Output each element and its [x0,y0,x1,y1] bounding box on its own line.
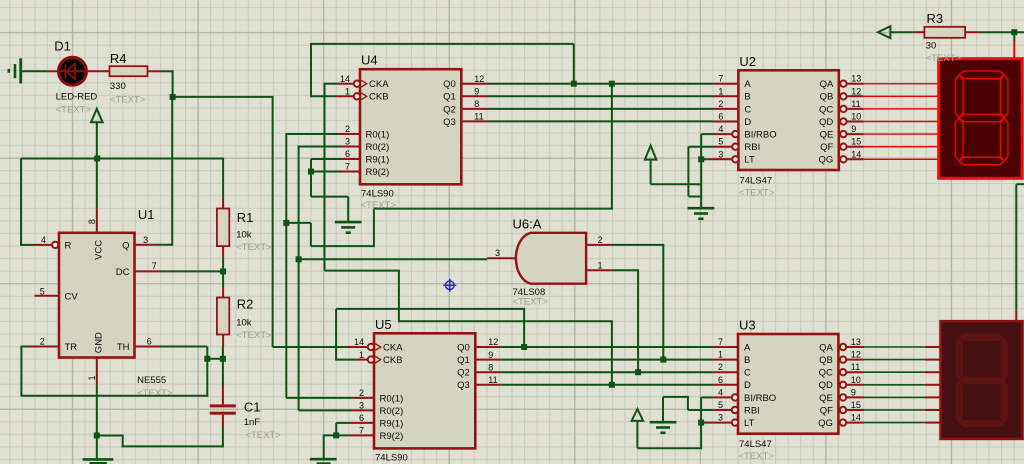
U1 pin 6 TH stub [135,346,161,348]
wire TR down [20,346,22,396]
svg-text:QC: QC [819,368,833,379]
wire down to U2 A net [573,44,575,84]
svg-text:8: 8 [474,99,479,109]
svg-text:<TEXT>: <TEXT> [926,53,962,64]
svg-text:R3: R3 [927,11,944,26]
wire down right side [1015,184,1017,309]
wire link up [373,209,375,247]
wire corner down to junction [172,70,174,97]
svg-text:5: 5 [718,137,723,147]
ground below U2 [688,207,715,210]
U4 R0(2) stub [340,146,360,148]
wire to U4 R0(2) [299,146,340,148]
U5 pin 8 stub [475,371,500,373]
svg-text:LT: LT [744,155,755,166]
wire link to R2/C1 column [207,358,223,360]
svg-text:A: A [744,79,751,90]
svg-text:R0(2): R0(2) [380,406,404,417]
svg-text:CV: CV [65,291,79,302]
svg-text:14: 14 [851,413,861,423]
svg-text:R9(1): R9(1) [380,418,404,429]
junction Q2 / gate input 1 [635,369,641,375]
wire R0(2) column U4-U5 reset net [298,146,300,411]
svg-text:74LS90: 74LS90 [361,188,394,199]
display 1 top pin stub [1013,41,1015,59]
svg-text:4: 4 [718,387,723,397]
svg-text:TH: TH [117,342,130,353]
U5 pin 9 stub [475,359,500,361]
svg-text:C: C [744,368,751,379]
U5 CKA stub [348,346,368,348]
wire jog down [687,397,689,410]
U5 CKB stub [357,359,368,361]
wire to U2 LT stub [701,158,707,160]
U3 output wire row 6 to display 2 [847,422,864,424]
wire junction down to U1 Q row [171,97,173,245]
svg-text:R2: R2 [237,297,254,312]
U2 output wire row 6 to display 1 [847,158,863,160]
wire down to U5 Q0 [523,309,525,347]
wire R2 to C1 [222,346,224,387]
svg-text:74LS90: 74LS90 [375,452,408,463]
svg-text:13: 13 [851,337,861,347]
svg-text:Q3: Q3 [443,117,456,128]
svg-text:7: 7 [345,162,350,172]
svg-text:12: 12 [851,350,861,360]
svg-text:A: A [744,342,751,353]
wire CKA path right to Q3 column [399,320,613,322]
U4 CKA stub [337,83,354,85]
svg-text:14: 14 [340,74,350,84]
svg-text:<TEXT>: <TEXT> [513,297,549,308]
svg-text:12: 12 [474,74,484,84]
U5 pin 11 stub [475,384,500,386]
svg-text:3: 3 [718,149,723,159]
svg-text:R0(1): R0(1) [380,393,404,404]
terminal arrow left of R3 [878,26,890,38]
junction BI/RBO column / LT [698,156,704,162]
DISP1 segment C [1000,118,1008,161]
wire junction right toward U5 CKA column [173,96,273,98]
DISP1 segment B [1000,75,1008,118]
junction BI/RBO column / U3 LT [698,420,704,426]
U6 pin 3 output stub [487,257,515,259]
svg-text:R0(2): R0(2) [366,142,390,153]
junction R9(1)/R9(2) [308,169,314,175]
svg-text:QB: QB [820,92,834,103]
7-segment display DISP1 body [939,59,1023,179]
U1 pin 3 Q stub [135,244,158,246]
wire to U2 RBI [688,146,713,148]
svg-text:CKB: CKB [369,92,389,103]
junction reset net / gate output [296,256,302,262]
svg-text:QC: QC [819,104,833,115]
U3 output wire row 4 to display 2 [847,396,864,398]
svg-text:C: C [744,104,751,115]
U6 pin 2 stub [586,244,612,246]
wire BI/RBO column down [700,397,702,448]
svg-text:<TEXT>: <TEXT> [56,104,92,115]
U3 BI/RBO stub [713,396,732,398]
junction Q0 / R0(1) link [609,81,615,87]
svg-text:7: 7 [718,337,723,347]
power terminal near U2 [645,146,657,160]
svg-text:QE: QE [820,130,834,141]
op-amp U1 NE555 body [59,233,135,358]
U4 pin 11 stub [461,120,488,122]
junction TH column / R2-C1 link [204,356,210,362]
svg-text:5: 5 [718,400,723,410]
svg-text:9: 9 [488,350,493,360]
U1 pin 2 TR stub [29,346,59,348]
wire to U5 CKB [336,359,357,361]
svg-text:LT: LT [744,418,755,429]
svg-text:15: 15 [851,400,861,410]
svg-text:4: 4 [41,235,46,245]
wire to U2 BI/RBO [701,133,713,135]
U2 output wire row 5 to display 1 [847,146,863,148]
wire gate input 2 down to U5 Q1 [662,245,664,360]
ground near U3 [650,421,677,424]
svg-text:U6:A: U6:A [513,216,542,231]
wire U5 Q3 to U3 D [500,384,713,386]
svg-text:2: 2 [40,336,45,346]
U5 R0(2) stub [353,409,374,411]
wire CKA path down to U5 Q3 [611,321,613,385]
wire TR bottom run to TH column [20,395,207,397]
counter U4 74LS90 body [354,69,462,184]
svg-text:D: D [744,380,751,391]
wire link right 3 [374,208,613,210]
svg-text:2: 2 [598,235,603,245]
svg-text:BI/RBO: BI/RBO [744,130,776,141]
wire jog to U3 RBI [688,409,713,411]
svg-text:QD: QD [819,380,833,391]
svg-text:QA: QA [819,342,833,353]
U3 RBI stub [713,409,732,411]
R3 left stub [914,31,925,33]
svg-text:QA: QA [820,79,834,90]
U2 RBI stub [714,146,733,148]
wire down to display 1 [1013,32,1015,41]
wire arrow stem down [650,160,652,185]
wire U4 Q1 to U2 B [488,95,714,97]
svg-text:DC: DC [116,267,130,278]
wire RBI column down [687,147,689,197]
ground below U4 [335,221,362,224]
svg-text:QG: QG [819,155,834,166]
svg-text:6: 6 [345,149,350,159]
svg-text:6: 6 [718,375,723,385]
svg-text:7: 7 [152,261,157,271]
wire gate input 1 down to U5 Q2 [637,270,639,372]
svg-text:U4: U4 [361,53,378,68]
wire ground stem up [662,397,664,422]
wire C1 bottom run left [122,445,224,447]
DISP2 segment C [1000,380,1008,423]
wire U1 GND down to ground [96,385,98,459]
wire VCC rail horizontal [21,158,223,160]
capacitor C1 [210,387,236,427]
svg-text:14: 14 [851,149,861,159]
wire arrow to ground column [651,183,702,185]
svg-text:2: 2 [718,362,723,372]
wire to U5 R9(1) [336,422,350,424]
svg-text:9: 9 [851,124,856,134]
svg-text:U1: U1 [138,207,155,222]
svg-text:1: 1 [718,350,723,360]
wire U4 Q3 to U2 D [488,120,714,122]
decoder U2 74LS47 body [732,70,846,170]
svg-text:R9(2): R9(2) [380,431,404,442]
U3 input stub row 1 [713,359,738,361]
svg-text:10: 10 [851,112,861,122]
svg-text:QF: QF [820,142,833,153]
wire U4 Q0 to U2 A [488,83,714,85]
wire U5 Q1 to U3 B [500,359,713,361]
svg-text:8: 8 [488,362,493,372]
wire gate input 2 right [612,244,664,246]
junction GND / C1 return [94,433,100,439]
svg-text:<TEXT>: <TEXT> [236,242,272,253]
wire R0(1) column U4-U5 [285,133,287,398]
U5 pin 12 stub [475,346,500,348]
svg-text:3: 3 [345,137,350,147]
U1 pin 1 GND stub [96,358,98,386]
svg-text:R4: R4 [110,51,127,66]
wire arrow to R3 stub [890,31,913,33]
U3 output wire row 3 to display 2 [847,384,864,386]
junction R3 / display feed [1011,29,1017,35]
U3 input stub row 3 [713,384,738,386]
U4 R9(1) stub [340,158,360,160]
wire U4 Q2 to U2 C [488,108,714,110]
svg-text:Q0: Q0 [457,342,470,353]
svg-text:Q1: Q1 [443,92,456,103]
power terminal above U1 [91,109,103,123]
svg-text:11: 11 [488,375,497,385]
wire R3 to right edge [979,31,1024,33]
U1 pin 4 R stub with bubble [34,242,59,248]
svg-text:R: R [65,240,72,251]
svg-text:13: 13 [851,74,861,84]
wire R9 to ground column [311,196,348,198]
svg-text:12: 12 [488,337,498,347]
wire gate output to reset column [299,258,488,260]
svg-text:1: 1 [359,350,364,360]
wire to U4 R9(1) [311,158,340,160]
wire to U4 CKA [325,83,338,85]
DISP1 segment A [959,71,1004,79]
svg-text:74LS47: 74LS47 [739,439,772,450]
svg-text:1nF: 1nF [244,417,261,428]
svg-text:TR: TR [65,342,78,353]
svg-text:1: 1 [718,86,723,96]
svg-text:RBI: RBI [744,405,760,416]
wire ground to D1 anode [22,70,46,72]
wire R1 to DC junction [222,257,224,271]
wire C1 bottom down [222,427,224,446]
junction Q0 / feedback [571,81,577,87]
svg-text:B: B [744,92,750,103]
7-segment display DISP2 body [941,321,1023,439]
wire link right 2 [311,245,375,247]
wire CKA path down [398,271,400,323]
U6 pin 1 stub [586,269,612,271]
wire link up to U2 A line [611,84,613,209]
ground below U1 [83,458,114,461]
svg-text:GND: GND [94,332,105,353]
svg-text:1: 1 [87,375,97,380]
svg-text:U2: U2 [739,54,756,69]
junction R2/C1 column [220,356,226,362]
wire to U4 R0(1) [286,133,340,135]
svg-text:R0(1): R0(1) [366,129,390,140]
wire to U5 R0(1) [286,397,352,399]
svg-text:RBI: RBI [744,142,760,153]
U2 BI/RBO stub [714,133,733,135]
origin marker [443,279,456,292]
svg-text:9: 9 [851,387,856,397]
svg-text:CKA: CKA [369,79,389,90]
wire TH column down [206,347,208,397]
U2 input stub row 2 [714,108,739,110]
U1 pin 7 DC stub [135,270,161,272]
U3 input stub row 0 [713,346,738,348]
svg-text:QE: QE [819,393,833,404]
svg-text:11: 11 [851,362,860,372]
svg-text:4: 4 [718,124,723,134]
U2 input stub row 3 [714,121,739,123]
U2 output wire row 2 to display 1 [847,108,863,110]
wire power arrow to U1 VCC [96,122,98,208]
wire U5 CKB up [335,309,337,361]
DISP1 segment F [955,75,963,118]
svg-text:3: 3 [495,248,500,258]
U5 R9(2) stub [349,434,374,436]
svg-text:D1: D1 [54,39,71,54]
svg-text:Q1: Q1 [457,355,470,366]
wire to U5 R9(2) [323,434,349,436]
DISP2 segment G [959,377,1004,385]
svg-text:12: 12 [851,86,861,96]
wire to U4 CKB [311,95,336,97]
wire U5 Q2 to U3 C [500,371,713,373]
svg-text:VCC: VCC [94,240,105,260]
wire arrow stem [636,421,638,448]
junction DC / R1 / R2 [220,268,226,274]
wire R4 to corner [161,70,174,72]
resistor R4 [110,66,162,76]
svg-text:9: 9 [474,87,479,97]
svg-text:<TEXT>: <TEXT> [739,451,775,462]
resistor R2 [217,287,229,346]
svg-text:6: 6 [359,413,364,423]
wire TH to corner [160,346,207,348]
U2 input stub row 1 [714,95,739,97]
wire link down [310,223,312,246]
svg-text:14: 14 [354,337,364,347]
wire RBI link to ground column [688,196,701,198]
wire to U3 LT stub [701,422,707,424]
svg-text:R1: R1 [237,210,254,225]
svg-text:3: 3 [359,401,364,411]
wire U4 CKA column down [324,83,326,271]
wire U4 CKB up [310,44,312,97]
svg-text:U5: U5 [375,317,392,332]
ground below U5 (clipped) [310,458,337,461]
DISP2 segment B [1000,337,1008,380]
wire jog up [122,436,124,448]
wire DC to R1/R2 junction [160,270,223,272]
svg-text:CKB: CKB [383,355,403,366]
wire from right edge [1016,183,1024,185]
svg-text:BI/RBO: BI/RBO [744,393,776,404]
DISP1 segment G [959,114,1004,122]
U4 pin 12 stub [461,83,488,85]
wire down to ground below U5 [323,435,325,459]
junction Q3 / U4 CKA path [609,382,615,388]
U5 R0(1) stub [353,397,374,399]
wire to U4 R9(2) [311,171,340,173]
wire U1 Q to corner [157,244,173,246]
svg-text:11: 11 [851,99,860,109]
svg-text:C1: C1 [244,400,261,415]
svg-text:15: 15 [851,137,861,147]
DISP1 segment E [955,118,963,161]
svg-text:NE555: NE555 [137,375,166,386]
U2 output wire row 1 to display 1 [847,95,863,97]
U2 output wire row 4 to display 1 [847,133,863,135]
wire top feedback run [310,43,574,45]
svg-text:1: 1 [345,87,350,97]
wire BI/RBO column down to ground [700,134,702,208]
DISP2 segment F [955,337,963,380]
svg-text:2: 2 [718,99,723,109]
svg-text:Q2: Q2 [457,368,470,379]
svg-text:<TEXT>: <TEXT> [110,95,146,106]
U5 R9(1) stub [350,422,374,424]
U3 output wire row 1 to display 2 [847,359,864,361]
junction R4/Q/U5-CKA net [170,94,176,100]
U4 pin 9 stub [461,95,488,97]
wire bottom run to arrow [637,447,702,449]
svg-text:30: 30 [926,40,937,51]
svg-text:10k: 10k [236,230,252,241]
wire U5 Q0 to U3 A [500,346,713,348]
svg-text:LED-RED: LED-RED [56,91,98,102]
wire down to U5 CKA row [272,96,274,347]
U4 R9(2) stub [340,171,360,173]
svg-text:Q2: Q2 [443,104,456,115]
LED D1 [46,57,110,85]
wire link right [286,222,311,224]
wire to U3 BI/RBO [701,396,713,398]
junction U5 R9(1)/R9(2) [333,432,339,438]
resistor R1 [217,198,229,257]
ground terminal left of D1 [19,58,22,83]
svg-text:R9(1): R9(1) [366,154,390,165]
wire TR to corner [21,346,29,348]
wire R9 column down [310,159,312,197]
counter U5 74LS90 body [368,333,476,448]
U2 LT stub [707,158,732,160]
wire CKB net right [336,308,525,310]
svg-text:2: 2 [359,388,364,398]
resistor R3 [924,27,978,38]
svg-text:QD: QD [819,117,833,128]
wire down to ground under U4 [347,197,349,223]
